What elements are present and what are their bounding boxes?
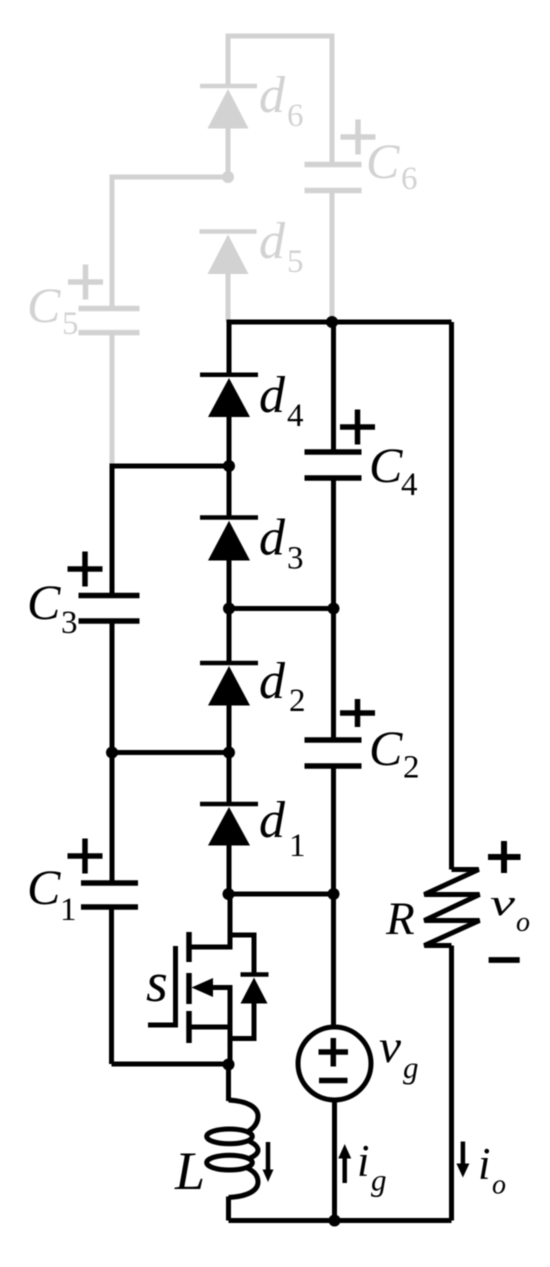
wire tie switch node to C2 bottom [229,892,334,897]
svg-text:s: s [146,952,168,1014]
plus polarity C3 [68,552,103,587]
label C6 [366,133,418,197]
svg-text:d: d [259,67,286,124]
wire tie C1 top to d1/d2 node [110,753,230,884]
svg-text:5: 5 [287,244,304,280]
label vo [490,883,530,938]
svg-text:C: C [369,437,403,493]
junction gray node d5-d6 [222,171,234,183]
label d5 [259,213,304,280]
svg-text:C: C [27,859,61,915]
junction d3-d4 node [223,460,235,472]
svg-text:g: g [371,1163,387,1198]
junction switch node [223,888,235,900]
svg-text:i: i [357,1136,370,1186]
svg-text:d: d [259,510,286,567]
junction d1-d2 node [223,747,235,759]
arrow inductor current down [263,1142,274,1182]
svg-text:o: o [516,907,530,938]
svg-text:d: d [259,213,286,270]
wire gray top bus d6 cathode to C6 top [226,36,335,164]
svg-text:o: o [492,1170,506,1201]
source vg [298,894,371,1221]
label io [478,1139,506,1201]
svg-text:2: 2 [289,683,306,719]
svg-text:1: 1 [60,892,77,928]
wire top black bus [227,320,452,325]
plus polarity C5 [68,265,103,300]
svg-text:d: d [259,367,286,424]
svg-text:3: 3 [287,541,304,577]
label s [146,952,168,1014]
svg-text:v: v [379,1021,401,1073]
label d4 [259,367,304,434]
svg-text:i: i [478,1139,491,1189]
junction C4 bottom [328,603,340,615]
svg-text:3: 3 [61,605,78,641]
junction C2 bottom [328,888,340,900]
diode d3 [200,466,258,609]
label L [174,1141,205,1201]
svg-text:g: g [403,1050,419,1085]
svg-text:C: C [27,277,61,333]
minus polarity vo [489,957,520,963]
svg-text:6: 6 [287,98,304,134]
label C4 [369,437,418,503]
diode d5 [200,232,257,323]
junction d2-d3 node [223,603,235,615]
label C2 [369,720,420,786]
wire gray tie C5 top to d5/d6 node [110,177,229,308]
junction top bus / C4 [326,316,338,328]
wire right rail top [449,322,454,870]
capacitor C3 [79,596,140,756]
wire C1 bottom to source node [112,1062,229,1067]
capacitor C6 [305,165,362,323]
svg-text:R: R [385,893,415,945]
svg-text:d: d [259,653,286,710]
svg-text:L: L [174,1141,205,1201]
label C3 [27,574,78,641]
svg-text:5: 5 [62,306,79,342]
arrow output current io down [456,1142,469,1178]
capacitor C5 [79,309,140,467]
svg-text:v: v [490,883,516,924]
svg-text:4: 4 [401,467,418,503]
body diode of s [230,935,269,1039]
label d2 [259,653,306,719]
diode d6 [200,86,257,177]
plus polarity C6 [341,120,376,155]
junction source node [223,1059,235,1071]
junction vg bottom [329,1215,341,1227]
svg-text:C: C [366,133,400,189]
capacitor C1 [81,883,138,1064]
label ig [357,1136,387,1198]
plus polarity vo [488,841,521,873]
diode d2 [200,609,258,753]
label R [385,893,415,945]
plus polarity C1 [68,839,103,874]
diode d1 [200,753,258,895]
inductor L [207,1065,258,1221]
svg-text:d: d [259,792,286,849]
capacitor C4 [305,322,362,609]
svg-text:C: C [27,574,61,630]
label C1 [27,859,77,928]
transistor s MOSFET [148,894,230,1064]
svg-text:1: 1 [289,828,306,864]
arrow input current ig up [338,1144,351,1183]
wire tie d2/d3 node to C4 bottom [229,606,334,611]
label d1 [259,792,306,864]
svg-text:4: 4 [287,398,304,434]
svg-text:2: 2 [403,750,420,786]
plus polarity C4 [340,410,375,445]
wire tie C3 top to d3/d4 node [110,466,230,598]
junction C1 top [106,747,118,759]
svg-text:6: 6 [401,161,418,197]
label vg [379,1021,419,1085]
svg-text:C: C [369,720,403,776]
resistor R [424,870,479,946]
wire bottom bus [229,1218,452,1223]
plus polarity C2 [340,699,375,727]
capacitor C2 [305,609,362,895]
diode d4 [200,322,258,466]
wire right rail bottom [449,946,454,1221]
label d6 [259,67,304,134]
label C5 [27,277,79,342]
label d3 [259,510,304,577]
